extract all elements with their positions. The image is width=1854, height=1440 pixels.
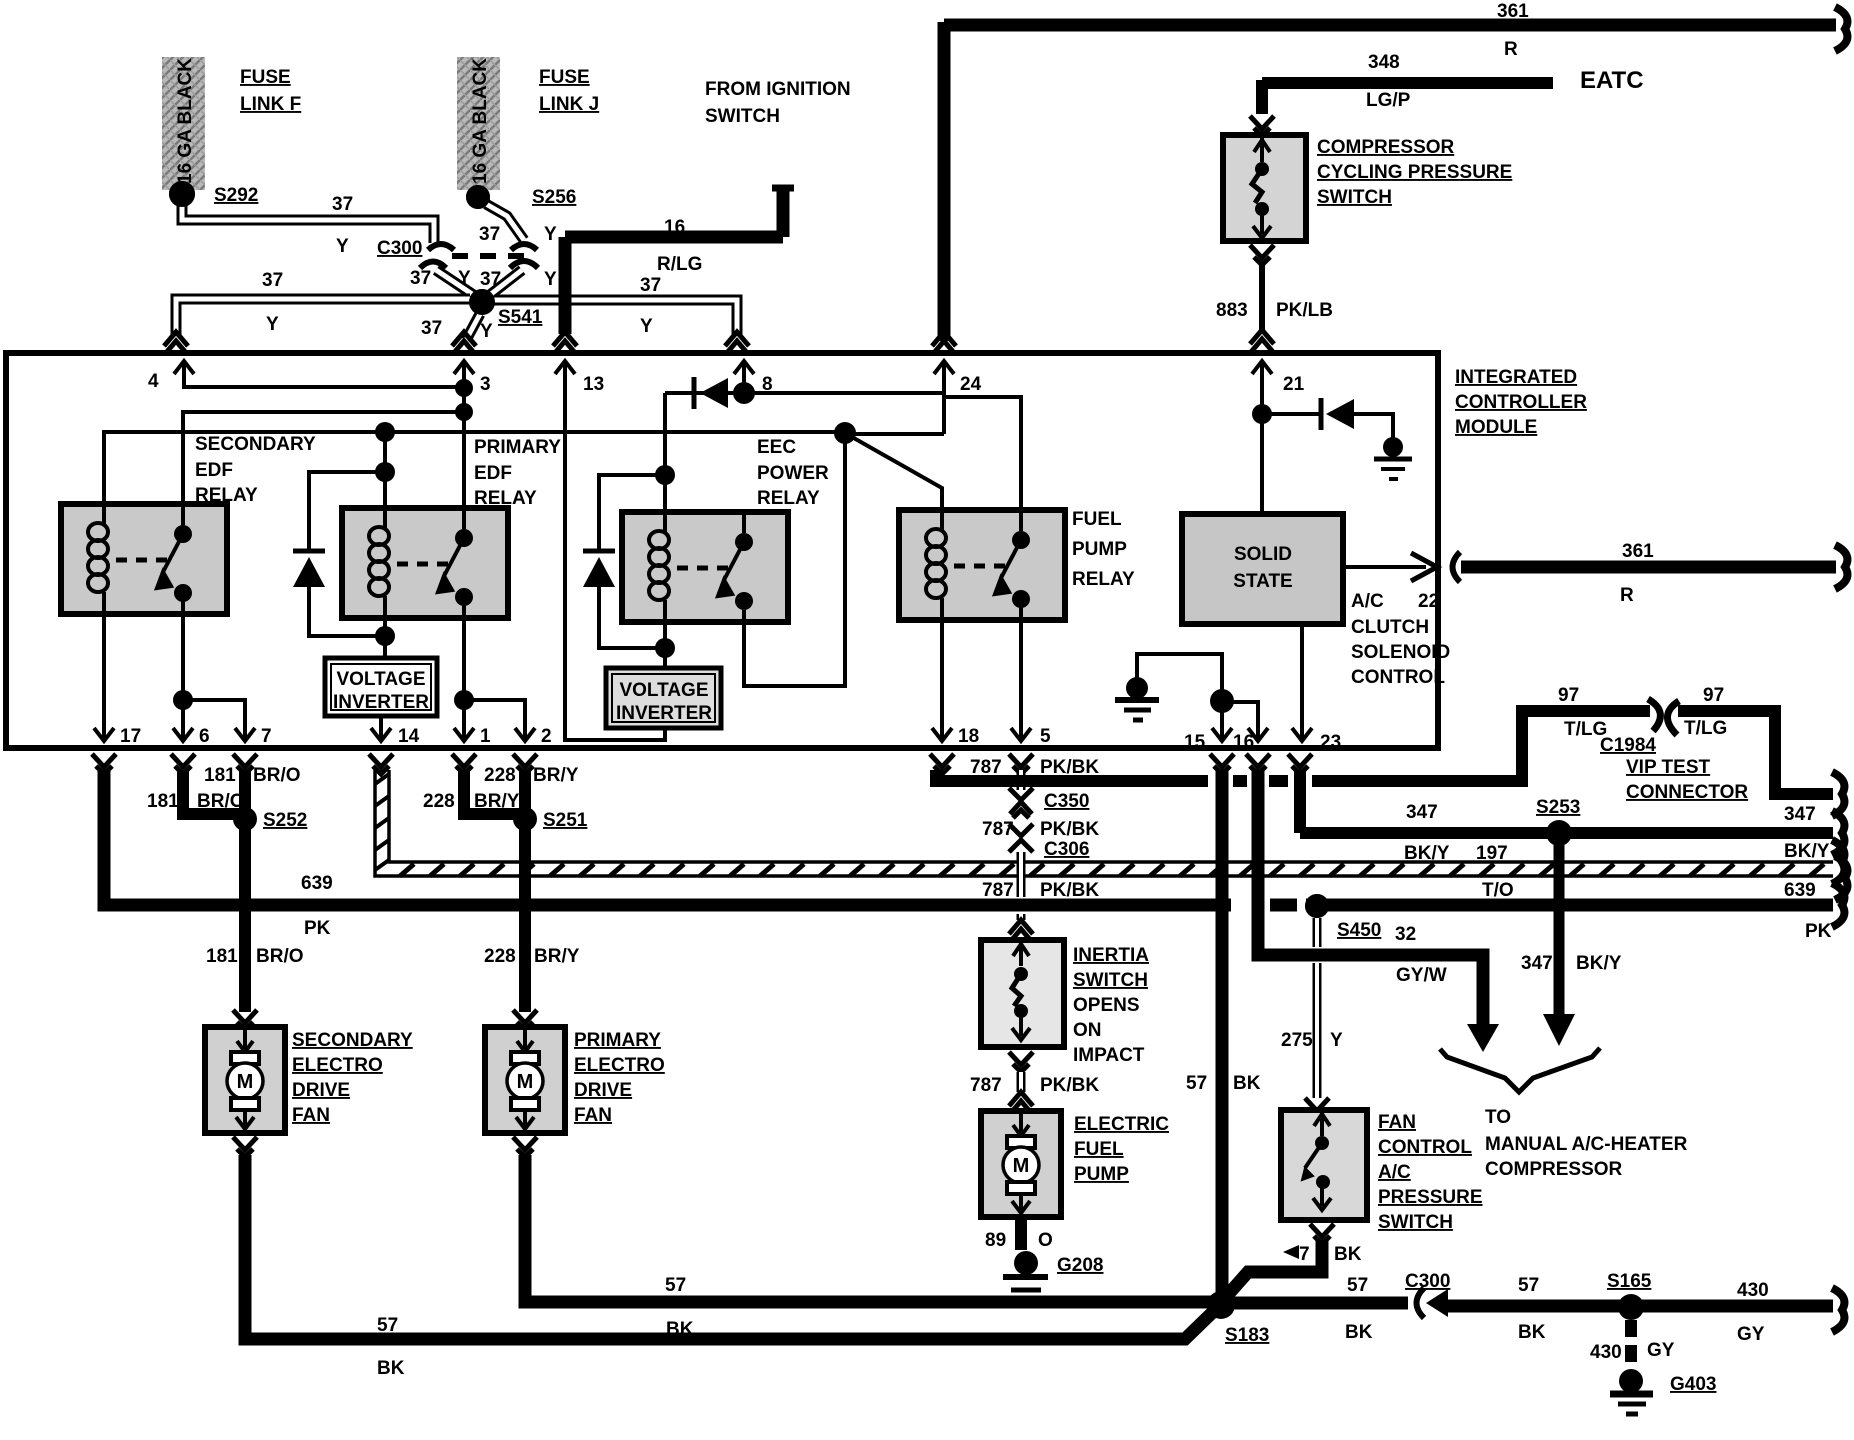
- svg-text:57: 57: [1186, 1073, 1207, 1094]
- pin 24: [934, 361, 982, 395]
- pin 14: [371, 718, 420, 747]
- svg-text:275: 275: [1281, 1030, 1313, 1051]
- node pin 8: [733, 382, 755, 404]
- svg-text:SECONDARY: SECONDARY: [292, 1030, 413, 1051]
- svg-text:16: 16: [664, 217, 685, 238]
- connector C1984: [1648, 699, 1679, 735]
- svg-text:FUEL: FUEL: [1074, 1139, 1124, 1160]
- connector pin 13 top: [553, 332, 577, 354]
- connector below compressor switch: [1250, 245, 1274, 265]
- svg-text:TO: TO: [1485, 1107, 1511, 1128]
- brace to manual compressor: [1440, 1048, 1600, 1092]
- connector pin 14 bottom: [369, 754, 393, 774]
- wire solid state to pin 23: [1300, 624, 1304, 726]
- label 89 O: [985, 1230, 1053, 1251]
- node primary coil bottom: [375, 626, 395, 646]
- svg-text:R: R: [1504, 39, 1518, 60]
- hook 347 right: [1832, 811, 1844, 855]
- wire pin13 to voltage inverter 2: [565, 382, 665, 740]
- hook 639 right: [1832, 883, 1844, 927]
- svg-text:T/O: T/O: [1482, 880, 1514, 901]
- svg-text:24: 24: [960, 374, 982, 395]
- wire node to pin 15: [1220, 701, 1224, 726]
- svg-text:181: 181: [204, 765, 236, 786]
- svg-text:Y: Y: [544, 269, 557, 290]
- pin 4: [148, 361, 194, 392]
- relay K2 primary EDF: [342, 508, 508, 618]
- svg-text:DRIVE: DRIVE: [574, 1080, 632, 1101]
- label 37 Y (pin8 wire): [640, 275, 661, 337]
- ground G208: [1003, 1251, 1048, 1303]
- svg-text:16: 16: [1233, 732, 1254, 753]
- splice S253: [1546, 820, 1572, 846]
- label 37 Y (right drop): [480, 269, 557, 290]
- svg-text:BK: BK: [377, 1358, 405, 1379]
- svg-text:PK/BK: PK/BK: [1040, 819, 1099, 840]
- wire 361 R to EATC: [1461, 561, 1836, 574]
- svg-text:EDF: EDF: [474, 463, 512, 484]
- hook 430 right: [1832, 1288, 1844, 1332]
- motor M3 electric fuel pump: [981, 1111, 1061, 1217]
- svg-text:347: 347: [1521, 953, 1553, 974]
- wire 181 BR/O pin6 to S252: [183, 770, 240, 814]
- label INTEGRATED CONTROLLER MODULE: [1455, 367, 1587, 438]
- svg-text:CONNECTOR: CONNECTOR: [1626, 782, 1748, 803]
- svg-text:S292: S292: [214, 185, 258, 206]
- svg-text:787: 787: [982, 880, 1014, 901]
- node switched power: [834, 422, 856, 444]
- svg-text:7: 7: [261, 726, 272, 747]
- label compressor cycling pressure switch: [1317, 137, 1512, 208]
- svg-text:LG/P: LG/P: [1366, 90, 1411, 111]
- label VIP TEST CONNECTOR: [1626, 757, 1748, 803]
- wire 275 Y S450 down: [1313, 918, 1322, 1098]
- node primary coil feed: [375, 422, 395, 442]
- svg-text:3: 3: [480, 374, 491, 395]
- svg-text:2: 2: [541, 726, 552, 747]
- svg-text:347: 347: [1406, 802, 1438, 823]
- wire 228 BR/Y pin1 to S251: [464, 770, 519, 814]
- wire diode to EEC coil: [663, 393, 667, 475]
- node pin3 lower: [455, 403, 473, 421]
- splice S292 dot overlay: [169, 181, 195, 207]
- wire primary clamp diode top: [309, 472, 385, 550]
- svg-text:PRIMARY: PRIMARY: [574, 1030, 661, 1051]
- svg-text:EEC: EEC: [757, 437, 796, 458]
- svg-text:SWITCH: SWITCH: [1317, 187, 1392, 208]
- svg-text:SECONDARY: SECONDARY: [195, 434, 316, 455]
- svg-text:16 GA BLACK: 16 GA BLACK: [175, 58, 196, 184]
- svg-text:BR/O: BR/O: [197, 791, 245, 812]
- arrow 347 to compressor: [1543, 1014, 1575, 1046]
- splice S292: [169, 181, 195, 207]
- wire 37 Y S541 to pin 4: [176, 299, 470, 338]
- label 361 R mid: [1620, 541, 1654, 606]
- connector pin 7 bottom: [233, 754, 257, 774]
- dashed mating line C300: [452, 253, 530, 259]
- connector pin 16 bottom: [1246, 754, 1270, 774]
- svg-text:BR/Y: BR/Y: [474, 791, 520, 812]
- svg-text:SWITCH: SWITCH: [1378, 1212, 1453, 1233]
- wire pin 18 bus to VIP 97: [936, 717, 1522, 781]
- label SECONDARY EDF RELAY: [195, 434, 316, 506]
- wire switched power bus y432: [104, 432, 845, 528]
- svg-text:S253: S253: [1536, 797, 1580, 818]
- svg-text:INVERTER: INVERTER: [616, 703, 712, 724]
- wire primary switch to pin 1: [462, 596, 466, 726]
- label 181 BR/O (pin6): [147, 791, 245, 812]
- hooks hatched bus right: [1832, 840, 1847, 900]
- pin 1: [454, 718, 491, 747]
- svg-text:639: 639: [301, 873, 333, 894]
- wire node to diode D4: [1262, 412, 1321, 416]
- label 97 97 T/LG T/LG C1984: [1558, 685, 1727, 756]
- svg-text:SWITCH: SWITCH: [1073, 970, 1148, 991]
- svg-text:SOLENOID: SOLENOID: [1351, 642, 1450, 663]
- svg-text:4: 4: [148, 371, 159, 392]
- svg-text:Y: Y: [480, 321, 493, 342]
- splice S541: [469, 289, 495, 315]
- wire secondary coil to pin 17: [102, 612, 106, 726]
- diode D4 (pin 21 clamp): [1321, 398, 1354, 430]
- wire 57 BK secondary fan to S183: [245, 1155, 1217, 1339]
- node pin1/2: [454, 690, 474, 710]
- connector secondary fan top: [233, 1010, 257, 1030]
- svg-text:POWER: POWER: [757, 463, 829, 484]
- wire secondary switch to pin 6: [181, 592, 185, 726]
- svg-text:R/LG: R/LG: [657, 254, 702, 275]
- arrow GY/W to compressor: [1467, 1024, 1499, 1052]
- wire fuel coil diagonal feed: [845, 433, 942, 514]
- connector pin 2 bottom: [513, 754, 537, 774]
- pin 17: [94, 718, 141, 747]
- ground G-int1 (diode): [1374, 437, 1412, 479]
- label S450 32: [1337, 920, 1417, 946]
- label 181 BR/O (lower): [206, 946, 304, 967]
- svg-text:14: 14: [398, 726, 420, 747]
- connector primary fan bottom: [513, 1137, 537, 1157]
- svg-text:430: 430: [1590, 1342, 1622, 1363]
- wire pin24 to bus node: [845, 432, 944, 436]
- svg-text:883: 883: [1216, 300, 1248, 321]
- diode D1 clamp (primary EDF): [293, 551, 325, 587]
- ground G-int2 (module internal): [1115, 677, 1159, 720]
- label 228 BR/Y (lower): [484, 946, 580, 967]
- svg-text:ELECTRO: ELECTRO: [292, 1055, 383, 1076]
- label 347 BK/Y (down): [1521, 953, 1622, 974]
- svg-text:361: 361: [1497, 1, 1529, 22]
- wire 787 pin5 to C350: [1017, 770, 1026, 790]
- svg-text:BK: BK: [1345, 1322, 1373, 1343]
- svg-text:CONTROL: CONTROL: [1351, 667, 1445, 688]
- svg-text:5: 5: [1040, 726, 1051, 747]
- wire diode D4 to ground: [1354, 414, 1393, 440]
- svg-text:37: 37: [640, 275, 661, 296]
- label 228 BR/Y (pin1): [423, 791, 520, 812]
- svg-text:Y: Y: [336, 236, 349, 257]
- svg-text:787: 787: [970, 757, 1002, 778]
- svg-text:FAN: FAN: [292, 1105, 330, 1126]
- node EEC coil top: [655, 465, 675, 485]
- pin 6: [173, 718, 210, 747]
- connector into compressor switch: [1250, 116, 1274, 136]
- svg-text:S450: S450: [1337, 920, 1381, 941]
- label 228 BR/Y (pin2): [484, 765, 579, 786]
- connector inertia top: [1009, 920, 1033, 942]
- connector AC switch top: [1305, 1098, 1329, 1118]
- svg-text:FUSE: FUSE: [240, 67, 291, 88]
- svg-text:37: 37: [262, 270, 283, 291]
- wire fuel switch to pin 5: [1019, 600, 1023, 726]
- label 37 Y (left drop): [410, 268, 471, 289]
- fuse link F hatched band: [162, 57, 205, 190]
- wire fuel coil to pin 18: [940, 614, 944, 726]
- wire ground to pins 15/16: [1137, 654, 1222, 700]
- wire pin3 to primary switch: [462, 382, 466, 538]
- pin 16: [1233, 718, 1268, 753]
- label 787 PK/BK (pump): [970, 1075, 1099, 1096]
- wire 14 hatched to bus: [375, 770, 1833, 876]
- svg-text:INERTIA: INERTIA: [1073, 945, 1149, 966]
- label 181 BR/O (pin7): [204, 765, 301, 786]
- wire BK AC switch to S183: [1225, 1240, 1322, 1298]
- pin 13: [555, 361, 604, 395]
- svg-text:S183: S183: [1225, 1325, 1269, 1346]
- splice S541 dot overlay: [469, 289, 495, 315]
- wire EEC coil top into box: [663, 475, 667, 514]
- svg-text:S256: S256: [532, 187, 576, 208]
- wire pin24 jog to fuel switch: [944, 397, 1021, 540]
- svg-text:FROM IGNITION: FROM IGNITION: [705, 79, 851, 100]
- fan control A/C pressure switch box: [1281, 1110, 1367, 1220]
- wire 89 O pump to G208: [1015, 1217, 1027, 1250]
- wire 181 BR/O pin7 down: [239, 770, 251, 1012]
- relay K4 fuel pump: [899, 510, 1065, 620]
- svg-text:A/C: A/C: [1378, 1162, 1411, 1183]
- svg-text:SOLID: SOLID: [1234, 544, 1292, 565]
- wire 37 Y from S256 to C300 right: [486, 204, 524, 240]
- svg-text:89: 89: [985, 1230, 1006, 1251]
- svg-text:PUMP: PUMP: [1072, 539, 1127, 560]
- svg-text:18: 18: [958, 726, 979, 747]
- svg-text:21: 21: [1283, 374, 1305, 395]
- connector C300 right half: [510, 244, 538, 268]
- svg-text:O: O: [1038, 1230, 1053, 1251]
- wire 883 PK/LB: [1259, 264, 1265, 332]
- svg-text:22: 22: [1418, 591, 1439, 612]
- svg-text:37: 37: [410, 268, 431, 289]
- label SECONDARY ELECTRO DRIVE FAN: [292, 1030, 413, 1126]
- svg-text:PK/BK: PK/BK: [1040, 757, 1099, 778]
- svg-text:6: 6: [199, 726, 210, 747]
- wire pin 21 node: [1260, 382, 1264, 514]
- connector pin 17 bottom: [92, 754, 116, 774]
- svg-text:PUMP: PUMP: [1074, 1164, 1129, 1185]
- svg-text:PRIMARY: PRIMARY: [474, 437, 561, 458]
- svg-text:639: 639: [1784, 880, 1816, 901]
- svg-text:C300: C300: [377, 238, 422, 259]
- wire break 639 bus at crossings: [1231, 897, 1306, 913]
- svg-text:Y: Y: [1330, 1030, 1343, 1051]
- svg-text:BK/Y: BK/Y: [1404, 843, 1450, 864]
- svg-text:S252: S252: [263, 810, 307, 831]
- wire 37 Y S541 to pin 8: [494, 300, 737, 338]
- svg-text:181: 181: [206, 946, 238, 967]
- svg-text:ELECTRO: ELECTRO: [574, 1055, 665, 1076]
- label 639 PK left: [301, 873, 333, 939]
- wire 37 Y C300 right to S541: [486, 270, 522, 298]
- wire primary coil feed: [383, 432, 387, 472]
- motor M1 secondary electro drive fan: [205, 1027, 285, 1133]
- svg-text:1: 1: [480, 726, 491, 747]
- label 37 Y (pin4 wire): [262, 270, 283, 335]
- integrated controller module box: [6, 353, 1438, 748]
- svg-text:ON: ON: [1073, 1020, 1102, 1041]
- label 787 PK/BK (C306): [982, 819, 1099, 840]
- wire VI1 to pin 14: [379, 716, 383, 726]
- node pin6/7: [173, 690, 193, 710]
- svg-text:GY/W: GY/W: [1396, 965, 1447, 986]
- node EEC coil bottom: [655, 638, 675, 658]
- svg-text:37: 37: [421, 318, 442, 339]
- voltage inverter VI1 box: [325, 658, 437, 716]
- wire node to pin 7: [183, 700, 245, 726]
- svg-text:FUEL: FUEL: [1072, 509, 1122, 530]
- connector below inertia: [1009, 1052, 1033, 1072]
- splice S450: [1305, 894, 1329, 918]
- svg-text:PK: PK: [304, 918, 331, 939]
- svg-text:CONTROLLER: CONTROLLER: [1455, 392, 1587, 413]
- splice S450 dot overlay: [1305, 894, 1329, 918]
- label 37 Y (pin3 wire): [421, 318, 493, 342]
- connector 361 output: [1453, 552, 1461, 582]
- connector pin 18 bottom: [930, 754, 954, 774]
- wire EEC clamp diode bottom: [599, 587, 665, 648]
- label 787 PK/BK (inertia): [982, 880, 1099, 901]
- svg-text:CLUTCH: CLUTCH: [1351, 617, 1429, 638]
- svg-text:57: 57: [1347, 1275, 1368, 1296]
- wire EEC switch out to node: [744, 433, 845, 686]
- svg-text:97: 97: [1703, 685, 1724, 706]
- svg-text:Y: Y: [640, 316, 653, 337]
- svg-text:FAN: FAN: [1378, 1112, 1416, 1133]
- svg-text:57: 57: [665, 1275, 686, 1296]
- diode D3 series (pin 8): [694, 377, 728, 409]
- splice S252: [233, 807, 257, 831]
- motor M2 primary electro drive fan: [485, 1027, 565, 1133]
- svg-text:G208: G208: [1057, 1255, 1103, 1276]
- wire 32 GY/W pin 16: [1258, 770, 1483, 1026]
- hook 361 mid right: [1835, 545, 1847, 589]
- svg-text:BK: BK: [666, 1319, 694, 1340]
- svg-text:BR/O: BR/O: [256, 946, 304, 967]
- svg-text:LINK F: LINK F: [240, 94, 301, 115]
- svg-text:DRIVE: DRIVE: [292, 1080, 350, 1101]
- connector pin 15 bottom: [1210, 754, 1234, 774]
- label 361 R top: [1497, 1, 1529, 60]
- svg-text:15: 15: [1184, 732, 1206, 753]
- svg-text:Y: Y: [266, 314, 279, 335]
- pin 2: [515, 718, 552, 747]
- svg-text:C300: C300: [1405, 1271, 1450, 1292]
- wire pin4 to pin3 node: [184, 382, 464, 387]
- svg-text:Y: Y: [544, 224, 557, 245]
- svg-text:INTEGRATED: INTEGRATED: [1455, 367, 1577, 388]
- label EEC POWER RELAY: [757, 437, 829, 509]
- svg-text:361: 361: [1622, 541, 1654, 562]
- pin 23: [1292, 718, 1341, 753]
- svg-text:EDF: EDF: [195, 460, 233, 481]
- hatch marks on BK/Y 197 bus: [400, 864, 1824, 876]
- svg-text:BK: BK: [1334, 1244, 1362, 1265]
- pin 15: [1184, 718, 1232, 753]
- label FUEL PUMP RELAY: [1072, 509, 1135, 590]
- wire 361 R top bus: [944, 22, 1836, 341]
- label FROM IGNITION SWITCH: [705, 79, 851, 127]
- svg-text:BR/Y: BR/Y: [533, 765, 579, 786]
- connector pin 24 top: [932, 332, 956, 354]
- wire 347 bus: [1300, 827, 1833, 839]
- wire primary coil top into box: [383, 472, 387, 512]
- label FUSE LINK F: [240, 67, 301, 115]
- wire 348 LG/P: [1262, 80, 1553, 114]
- svg-text:A/C: A/C: [1351, 591, 1384, 612]
- svg-text:FAN: FAN: [574, 1105, 612, 1126]
- label 787 PK/BK (pin5): [970, 757, 1099, 778]
- wire EEC clamp diode branch top: [599, 475, 665, 550]
- svg-text:228: 228: [484, 946, 516, 967]
- label 275 Y: [1281, 1030, 1343, 1051]
- svg-text:347: 347: [1784, 804, 1816, 825]
- svg-text:STATE: STATE: [1233, 571, 1292, 592]
- wire pin8 to diode D3: [665, 391, 744, 395]
- svg-text:G403: G403: [1670, 1374, 1716, 1395]
- svg-text:S251: S251: [543, 810, 588, 831]
- svg-text:197: 197: [1476, 843, 1508, 864]
- connector C350: [1009, 788, 1033, 818]
- connector pin 6 bottom: [171, 754, 195, 774]
- svg-text:VOLTAGE: VOLTAGE: [336, 669, 425, 690]
- label C300 57 BK: [1345, 1271, 1546, 1343]
- svg-text:C306: C306: [1044, 839, 1089, 860]
- svg-text:SWITCH: SWITCH: [705, 106, 780, 127]
- node primary coil top: [375, 462, 395, 482]
- wire 228 BR/Y pin2 down: [519, 770, 531, 1012]
- svg-text:Y: Y: [458, 268, 471, 289]
- label 57 BK (lower bus): [377, 1315, 405, 1379]
- svg-text:MANUAL A/C-HEATER: MANUAL A/C-HEATER: [1485, 1134, 1688, 1155]
- svg-text:PRESSURE: PRESSURE: [1378, 1187, 1483, 1208]
- ground G403: [1610, 1369, 1653, 1414]
- svg-text:57: 57: [377, 1315, 398, 1336]
- svg-text:228: 228: [484, 765, 516, 786]
- connector primary fan top: [513, 1010, 537, 1030]
- svg-text:VIP TEST: VIP TEST: [1626, 757, 1711, 778]
- pin 3: [454, 361, 491, 395]
- svg-text:C1984: C1984: [1600, 735, 1656, 756]
- wire node to pin 2: [464, 700, 525, 726]
- connector C300 left half: [420, 244, 454, 268]
- svg-text:BK: BK: [1518, 1322, 1546, 1343]
- splice S256 dot overlay: [466, 185, 490, 209]
- wire 430 GY S165 to G403 dashed: [1625, 1320, 1637, 1370]
- svg-text:CONTROL: CONTROL: [1378, 1137, 1472, 1158]
- svg-text:RELAY: RELAY: [474, 488, 537, 509]
- splice S165: [1618, 1294, 1644, 1320]
- svg-text:BK/Y: BK/Y: [1576, 953, 1622, 974]
- connector pin 8 top: [725, 332, 749, 354]
- svg-text:VOLTAGE: VOLTAGE: [619, 680, 708, 701]
